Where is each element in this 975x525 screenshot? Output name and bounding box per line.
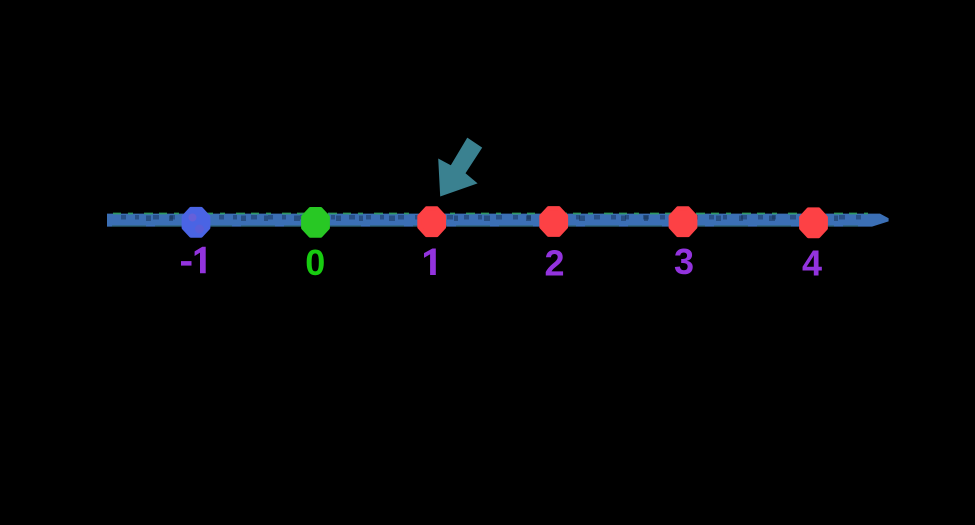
point 1 (red dot) (419, 208, 444, 235)
line dark texture dashes row A (121, 215, 868, 220)
point -1 (blue dot) (184, 209, 209, 236)
number line (107, 214, 889, 227)
point 0 (green dot) (303, 209, 328, 236)
svg-text:2: 2 (544, 243, 564, 284)
svg-text:3: 3 (674, 241, 694, 282)
line bottom edge dark-green hairline (112, 225, 858, 227)
point 3 (red dot) (671, 208, 696, 235)
arrow pointer at 1 (438, 138, 482, 197)
svg-text:4: 4 (802, 243, 822, 284)
point 4 (red dot) (801, 209, 826, 236)
point 2 (red dot) (541, 208, 566, 235)
label 1 (424, 249, 436, 276)
line dark texture dashes row B (146, 216, 852, 222)
svg-text:0: 0 (305, 242, 325, 283)
line top edge green dashes (113, 213, 868, 215)
blue dot texture smudges (189, 214, 197, 222)
label -1 : digit 1 (195, 247, 206, 273)
label -1 : hyphen (181, 261, 192, 266)
